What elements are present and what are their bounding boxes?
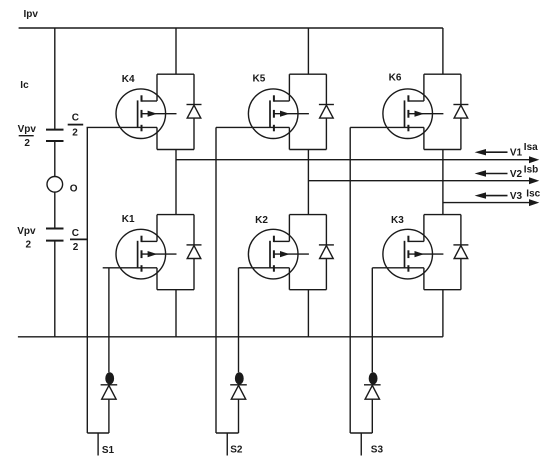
diode of K3 (453, 245, 468, 259)
svg-text:K3: K3 (391, 215, 404, 226)
transistor K1 (MOSFET) (116, 229, 177, 279)
pulse gate symbol on K1 gate line (S1) (101, 372, 118, 399)
svg-text:Ic: Ic (20, 80, 29, 91)
svg-text:K4: K4 (122, 74, 135, 85)
wire phase c junction (442, 150, 444, 215)
arrow voltage V2 (475, 170, 508, 176)
svg-text:Vpv: Vpv (18, 124, 37, 135)
label C/2 upper (68, 113, 84, 139)
transistor K2 (MOSFET) (248, 229, 308, 279)
diode of K6 (453, 105, 468, 119)
svg-text:K5: K5 (253, 73, 266, 84)
wire phase b output with current arrow Isb (308, 177, 539, 184)
svg-text:C: C (72, 228, 79, 239)
wire below pulse symbol S1 (108, 399, 110, 433)
wire gate lead K3 (372, 267, 424, 269)
switch cell K2 outline (289, 215, 326, 290)
wire phase a junction (175, 150, 177, 215)
wire feed top rail to K4 cell (175, 28, 177, 74)
pulse gate symbol on K2 gate line (S2) (230, 372, 247, 399)
svg-text:S3: S3 (371, 444, 384, 455)
capacitor C/2 upper (46, 130, 64, 141)
svg-text:O: O (70, 183, 78, 194)
wire K1 cell bottom to rail (175, 290, 177, 337)
source O (neutral point) (47, 177, 63, 193)
wire left branch lower segment (54, 241, 56, 337)
wire S3 terminal stub (360, 433, 362, 456)
svg-text:Isb: Isb (524, 165, 538, 176)
wire gate lead K1 (103, 267, 157, 269)
pulse gate symbol on K3 gate line (S3) (364, 372, 381, 399)
svg-text:S2: S2 (230, 444, 243, 455)
label C/2 lower (70, 228, 87, 253)
wire gate net K2 down to pulse symbol (238, 268, 240, 373)
wire phase a output with current arrow Isa (176, 156, 539, 163)
label Vpv 2 lower (17, 226, 36, 251)
svg-text:2: 2 (26, 240, 32, 251)
svg-text:Ipv: Ipv (24, 9, 39, 20)
wire gate net K5 down to S2 loop (215, 127, 217, 433)
arrow voltage V3 (475, 192, 508, 198)
wire gate net K6 down to S3 loop (349, 127, 351, 433)
wire below pulse symbol S2 (238, 399, 240, 433)
switch cell K1 outline (157, 215, 194, 290)
transistor K4 (MOSFET) (116, 89, 177, 139)
transistor K3 (MOSFET) (383, 229, 443, 279)
wire S1 loop bottom (87, 432, 109, 434)
wire left branch upper segment (54, 28, 56, 130)
wire top DC rail (19, 27, 443, 29)
transistor K6 (MOSFET) (383, 89, 443, 139)
wire phase b junction (307, 150, 309, 215)
svg-text:2: 2 (73, 242, 79, 253)
diode of K4 (187, 105, 202, 119)
wire K2 cell bottom to rail (307, 290, 309, 337)
svg-text:Isa: Isa (524, 142, 538, 153)
wire phase c output with current arrow Isc (443, 199, 539, 206)
wire gate net K3 down to pulse symbol (371, 268, 373, 373)
svg-text:V2: V2 (510, 169, 523, 180)
svg-text:Isc: Isc (526, 189, 540, 200)
wire K3 cell bottom to rail (442, 290, 444, 337)
switch cell K3 outline (424, 215, 461, 290)
wire S2 terminal stub (226, 433, 228, 456)
capacitor C/2 lower (46, 229, 64, 241)
svg-text:K1: K1 (122, 214, 135, 225)
wire gate lead K2 (239, 267, 290, 269)
wire below pulse symbol S3 (371, 399, 373, 433)
svg-text:S1: S1 (102, 445, 115, 456)
wire S1 terminal stub (97, 433, 99, 456)
svg-text:K2: K2 (255, 215, 268, 226)
switch cell K6 outline (424, 74, 461, 149)
wire bottom DC rail (18, 336, 443, 338)
wire feed top rail to K6 cell (442, 28, 444, 74)
wire left branch between source O and C2 (54, 192, 56, 228)
svg-text:2: 2 (72, 127, 78, 138)
arrow voltage V1 (475, 149, 508, 155)
diode of K1 (187, 245, 202, 259)
wire gate lead K5 (216, 126, 289, 128)
wire gate lead K6 (350, 126, 424, 128)
wire gate net K4 down to S1 loop (86, 127, 88, 433)
svg-text:2: 2 (24, 138, 30, 149)
svg-text:C: C (72, 113, 79, 124)
diode of K2 (319, 245, 334, 259)
svg-text:V3: V3 (510, 191, 523, 202)
label Vpv/2 upper (18, 124, 37, 149)
svg-text:Vpv: Vpv (17, 226, 36, 237)
transistor K5 (MOSFET) (248, 89, 308, 139)
wire gate net K1 down to pulse symbol (108, 268, 110, 373)
wire S2 loop bottom (216, 432, 239, 434)
svg-text:V1: V1 (510, 148, 523, 159)
switch cell K4 outline (157, 74, 194, 149)
wire feed top rail to K5 cell (307, 28, 309, 74)
diode of K5 (319, 105, 334, 119)
wire S3 loop bottom (350, 432, 372, 434)
wire gate lead K4 (87, 126, 157, 128)
svg-text:K6: K6 (389, 72, 402, 83)
switch cell K5 outline (289, 74, 326, 149)
wire left branch between C1 and source O (54, 141, 56, 177)
